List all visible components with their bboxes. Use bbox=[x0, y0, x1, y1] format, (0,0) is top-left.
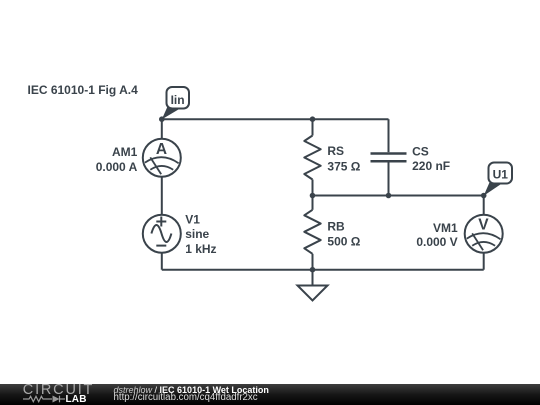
logo squiggle: resistor + diode bbox=[23, 395, 67, 403]
flag Iin tail bbox=[162, 107, 181, 119]
wire: left branch top (node to AM1) bbox=[161, 119, 163, 139]
svg-text:Iin: Iin bbox=[171, 93, 185, 107]
voltmeter VM1 needle bbox=[472, 233, 483, 250]
svg-text:V1: V1 bbox=[185, 212, 200, 226]
svg-text:U1: U1 bbox=[493, 168, 509, 182]
voltmeter VM1 scale arcs bbox=[467, 233, 501, 239]
voltmeter VM1 body bbox=[465, 215, 503, 253]
svg-text:CS: CS bbox=[412, 144, 429, 158]
wire: V1 to bottom net bbox=[161, 253, 163, 270]
svg-text:0.000 A: 0.000 A bbox=[96, 160, 138, 174]
resistor RB bbox=[304, 210, 320, 254]
node U1 junction dot bbox=[481, 193, 487, 199]
wire: RS bottom lead bbox=[312, 180, 314, 196]
resistor RS bbox=[304, 136, 320, 180]
footer text line 2 bbox=[114, 393, 258, 403]
wire: RS top lead bbox=[312, 119, 314, 135]
wire: CS top lead bbox=[388, 119, 390, 152]
V1 sine wave bbox=[151, 225, 171, 242]
svg-text:IEC 61010-1 Fig A.4: IEC 61010-1 Fig A.4 bbox=[28, 83, 139, 97]
wire: RB top lead bbox=[312, 196, 314, 210]
V1 minus sign bbox=[156, 245, 166, 247]
CircuitLab logo wordmark bbox=[23, 382, 94, 398]
flag U1 tail bbox=[484, 183, 502, 196]
ammeter AM1 needle bbox=[150, 157, 161, 174]
node Iin junction dot bbox=[159, 116, 165, 122]
ground symbol bbox=[298, 270, 328, 301]
svg-text:0.000 V: 0.000 V bbox=[416, 235, 457, 249]
ammeter AM1 scale arcs bbox=[145, 157, 179, 163]
capacitor CS bottom plate bbox=[371, 160, 407, 163]
svg-text:375 Ω: 375 Ω bbox=[327, 159, 360, 173]
svg-text:RB: RB bbox=[327, 219, 345, 233]
svg-text:A: A bbox=[156, 141, 167, 158]
svg-text:1 kHz: 1 kHz bbox=[185, 242, 216, 256]
svg-text:220 nF: 220 nF bbox=[412, 159, 450, 173]
svg-text:500 Ω: 500 Ω bbox=[327, 235, 360, 249]
svg-text:V: V bbox=[478, 217, 489, 234]
svg-text:RS: RS bbox=[327, 144, 344, 158]
svg-text:AM1: AM1 bbox=[112, 145, 138, 159]
node: middle net / CS junction dot bbox=[386, 193, 392, 199]
node: middle net / RS-RB junction dot bbox=[310, 193, 316, 199]
wire: top net from node Iin to CS branch bbox=[162, 118, 389, 120]
wire: RB bottom lead bbox=[312, 254, 314, 270]
ammeter AM1 body bbox=[143, 139, 181, 177]
svg-text:sine: sine bbox=[185, 227, 209, 241]
wire: bottom net bbox=[162, 269, 484, 271]
wire: U1 node to VM1 bbox=[483, 196, 485, 215]
svg-text:VM1: VM1 bbox=[433, 221, 458, 235]
node: bottom net / ground junction dot bbox=[310, 267, 316, 273]
flag Iin box bbox=[167, 87, 190, 109]
V1 plus sign bbox=[156, 217, 166, 227]
wire: middle net from RS/RB node to U1 node bbox=[313, 195, 484, 197]
node: top net / RS junction dot bbox=[310, 116, 316, 122]
wire: CS bottom lead bbox=[388, 162, 390, 195]
wire: VM1 to bottom net bbox=[483, 253, 485, 270]
voltage source V1 body bbox=[143, 215, 181, 253]
wire: AM1 to V1 bbox=[161, 177, 163, 215]
footer bar bbox=[0, 384, 540, 405]
footer text line 1 bbox=[114, 386, 269, 395]
flag U1 box bbox=[489, 163, 513, 184]
capacitor CS top plate bbox=[371, 152, 407, 155]
